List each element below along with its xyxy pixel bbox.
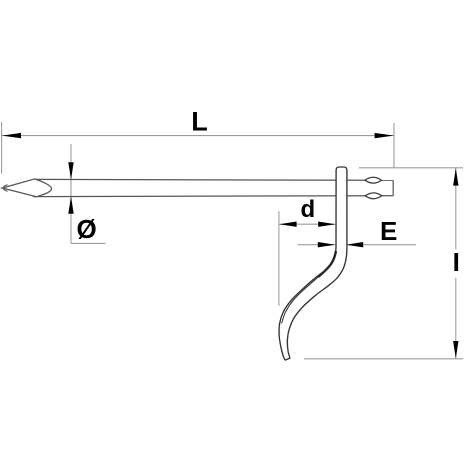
- arrow I bottom: [453, 341, 458, 358]
- extension line I top: [359, 167, 463, 169]
- arrow Ø top: [68, 162, 73, 180]
- bar right end cap: [392, 180, 394, 195]
- lens bottom (chamfer mark): [365, 193, 382, 199]
- dimension line E right part: [346, 244, 416, 246]
- arrow L right: [375, 133, 394, 138]
- extension line d: [278, 211, 280, 306]
- arrow Ø bottom: [68, 196, 73, 214]
- svg-text:I: I: [453, 247, 460, 277]
- arrow L left: [2, 133, 21, 138]
- arrow E right: [346, 242, 363, 247]
- svg-text:Ø: Ø: [77, 214, 97, 244]
- chisel tip small arc: [3, 185, 7, 192]
- claw bevel thick band at bend: [318, 251, 336, 277]
- svg-text:E: E: [380, 216, 397, 246]
- chisel tip outline: [2, 179, 51, 197]
- lens top (chamfer mark): [365, 177, 382, 183]
- arrow I top: [453, 168, 458, 185]
- arrow d left: [279, 222, 296, 227]
- arrow E left: [318, 242, 335, 247]
- dimension line E left part: [298, 244, 336, 246]
- dimension line L: [2, 135, 394, 137]
- claw (swan neck) body: [279, 167, 347, 360]
- arrow d right: [318, 222, 335, 227]
- bar bottom edge: [33, 195, 393, 198]
- svg-text:L: L: [191, 107, 208, 137]
- extension line left (L): [1, 122, 3, 174]
- bar top edge: [35, 178, 394, 181]
- dimension line I upper: [455, 168, 457, 249]
- claw inner bevel line: [282, 258, 336, 324]
- svg-text:d: d: [301, 196, 316, 223]
- extension line I bottom: [304, 358, 463, 360]
- dimension line d: [279, 223, 336, 225]
- dimension leader Ø vertical: [70, 144, 72, 243]
- dimension line I lower: [455, 278, 457, 359]
- extension line right (L): [393, 123, 395, 167]
- dimension leader Ø underline: [71, 242, 106, 244]
